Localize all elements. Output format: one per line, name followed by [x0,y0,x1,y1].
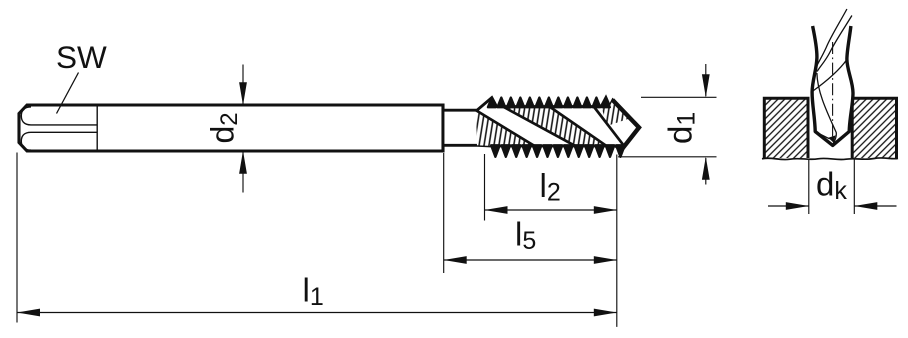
d1 dimension [618,64,717,185]
square drive flats (SW) [21,106,97,150]
l2 dimension [485,154,617,221]
d2 dimension [242,65,244,193]
core drill outline [812,26,853,145]
drill flute helix lines [812,9,852,144]
flute edge V2 [500,105,592,155]
flute hatch band 2 [501,104,608,155]
flute edge D1 [476,110,543,151]
flute hatch band 3 (tip) [599,99,631,127]
dk dimension [768,160,897,215]
l5 dimension [444,153,617,273]
tap shank [19,105,443,151]
drill point facet [828,135,835,142]
thread section body [443,98,639,151]
flute hatch band 1 [476,110,542,162]
drill chisel edge [815,132,829,139]
thread teeth [488,98,625,157]
SW leader line [57,73,79,114]
l1 dimension [17,153,617,327]
chamfer overdraw at tip [613,100,640,151]
right figure: left section block [764,98,808,158]
drill centre line [832,42,834,146]
flute edge V3 [590,101,626,148]
break line [762,158,898,160]
svg-text:SW: SW [56,39,107,75]
flute edge U2 [545,104,609,148]
right section block [852,98,896,158]
